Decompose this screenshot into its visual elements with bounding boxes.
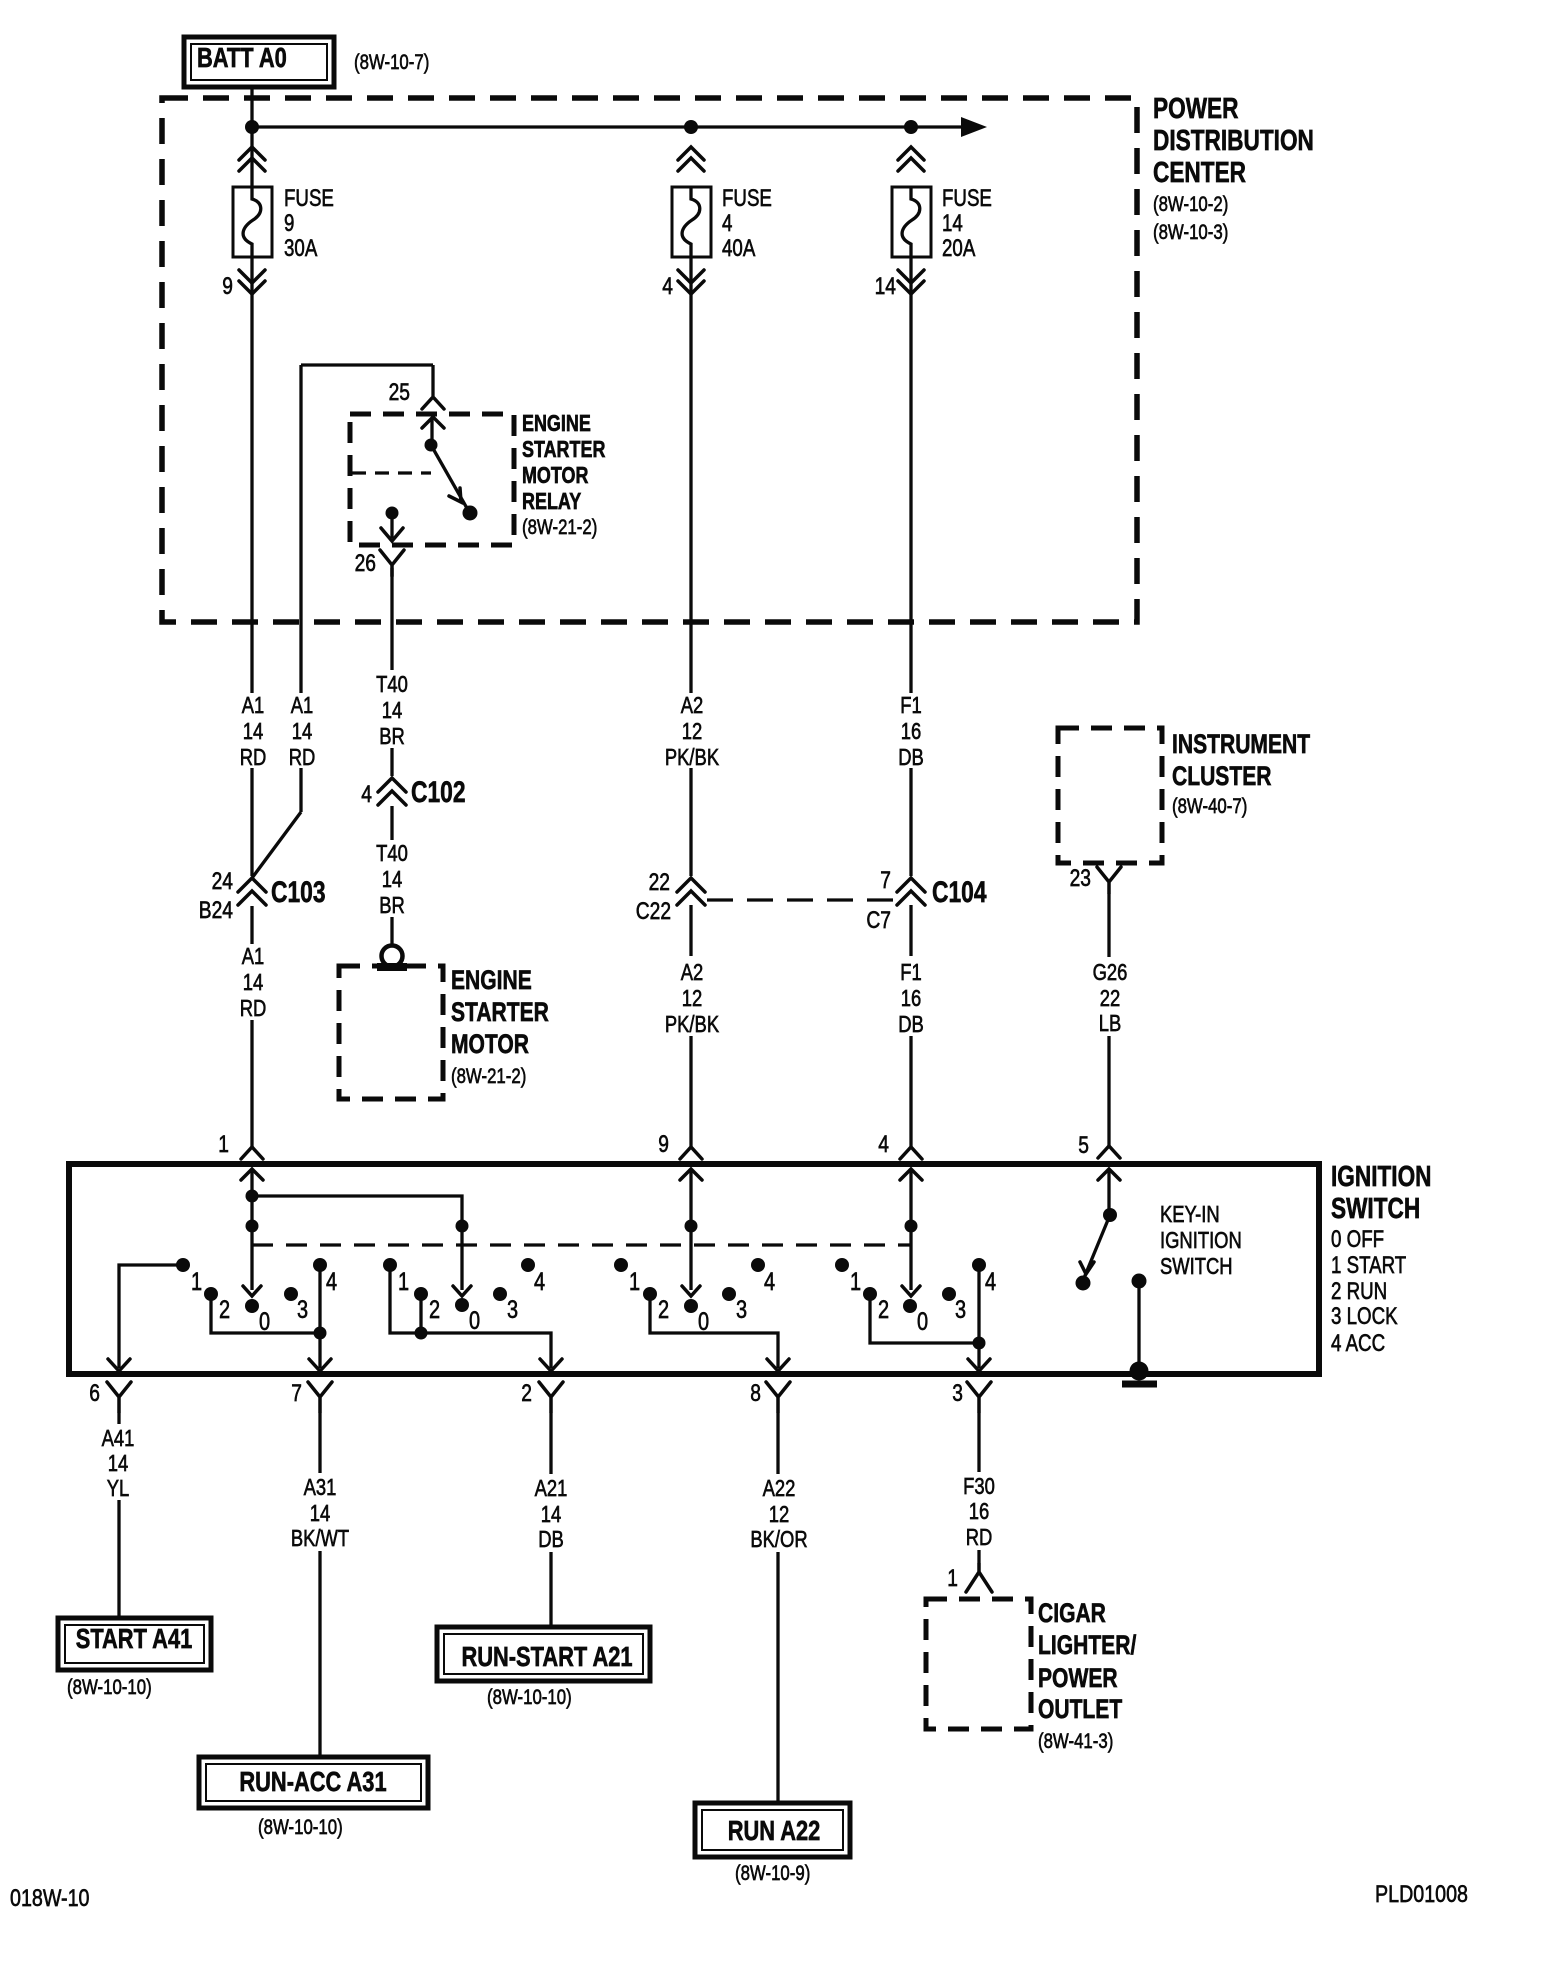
fuse 14 20A bbox=[892, 185, 992, 262]
junction node at fuse 9 bbox=[245, 120, 259, 134]
svg-text:KEY-IN: KEY-IN bbox=[1160, 1201, 1220, 1227]
wire label A2 12 PK/BK lower bbox=[665, 959, 720, 1037]
svg-text:A2: A2 bbox=[681, 959, 704, 985]
connector C104 pins 7/C7 bbox=[866, 867, 986, 934]
wafer 3 run contact wire to pin 8 bbox=[650, 1294, 778, 1368]
svg-text:2: 2 bbox=[219, 1296, 230, 1324]
svg-text:C102: C102 bbox=[411, 776, 466, 809]
svg-text:RUN-START A21: RUN-START A21 bbox=[461, 1641, 632, 1672]
svg-text:C22: C22 bbox=[636, 898, 671, 925]
svg-text:RD: RD bbox=[240, 995, 267, 1021]
svg-text:4: 4 bbox=[985, 1268, 996, 1296]
pin 6 exit fork below box bbox=[89, 1380, 131, 1412]
svg-text:3: 3 bbox=[952, 1380, 963, 1407]
svg-text:5: 5 bbox=[1078, 1132, 1089, 1159]
svg-text:2: 2 bbox=[429, 1296, 440, 1324]
cigar lighter pin 1 entry fork bbox=[947, 1564, 992, 1592]
svg-text:FUSE: FUSE bbox=[284, 185, 334, 212]
svg-text:4: 4 bbox=[722, 210, 732, 237]
svg-text:T40: T40 bbox=[376, 671, 408, 697]
RUN-ACC A31 box bbox=[199, 1757, 428, 1808]
key-in ignition switch arm bbox=[1076, 1169, 1118, 1291]
wire label A41 14 YL bbox=[102, 1425, 135, 1501]
dashed link C22 to C104 bbox=[707, 898, 895, 901]
wafer 1 contacts bbox=[176, 1258, 337, 1336]
wire from battery to bus bbox=[250, 88, 253, 187]
cluster pin 23 exit fork bbox=[1070, 865, 1121, 893]
svg-text:0 OFF: 0 OFF bbox=[1331, 1226, 1384, 1253]
svg-text:14: 14 bbox=[382, 866, 403, 892]
connector chevron above fuse 9 bbox=[239, 147, 265, 171]
svg-text:LIGHTER/: LIGHTER/ bbox=[1038, 1630, 1137, 1660]
svg-text:CENTER: CENTER bbox=[1153, 157, 1246, 189]
wire label A21 14 DB bbox=[535, 1475, 568, 1552]
wire fuse 9 down to C103 bbox=[250, 257, 253, 1147]
svg-text:3: 3 bbox=[507, 1296, 518, 1324]
wire label T40 14 BR lower bbox=[376, 840, 408, 918]
svg-text:1: 1 bbox=[850, 1268, 861, 1296]
svg-text:0: 0 bbox=[469, 1307, 480, 1335]
svg-text:14: 14 bbox=[243, 969, 264, 995]
wire label F1 16 DB lower bbox=[898, 959, 924, 1037]
svg-text:1: 1 bbox=[629, 1268, 640, 1296]
wire label A2 12 PK/BK upper bbox=[665, 692, 720, 770]
svg-text:A21: A21 bbox=[535, 1475, 568, 1501]
svg-text:POWER: POWER bbox=[1038, 1663, 1118, 1693]
svg-text:3: 3 bbox=[297, 1296, 308, 1324]
relay output node pin 26 bbox=[381, 507, 403, 542]
pin 4 entry chevrons bbox=[878, 1131, 922, 1180]
svg-text:(8W-10-7): (8W-10-7) bbox=[354, 51, 429, 74]
svg-text:G26: G26 bbox=[1093, 959, 1128, 985]
svg-text:4: 4 bbox=[662, 273, 673, 300]
svg-text:(8W-10-2): (8W-10-2) bbox=[1153, 193, 1228, 216]
svg-text:018W-10: 018W-10 bbox=[10, 1885, 90, 1912]
svg-text:0: 0 bbox=[917, 1308, 928, 1336]
svg-text:23: 23 bbox=[1070, 865, 1091, 892]
svg-text:(8W-21-2): (8W-21-2) bbox=[451, 1065, 526, 1088]
svg-text:DB: DB bbox=[538, 1526, 564, 1552]
svg-text:(8W-41-3): (8W-41-3) bbox=[1038, 1730, 1113, 1753]
svg-text:4: 4 bbox=[534, 1268, 545, 1296]
wire T40 segments bbox=[390, 568, 393, 945]
svg-text:F30: F30 bbox=[963, 1473, 995, 1499]
wire F1 segments bbox=[909, 257, 912, 1147]
wafer 1 run/acc contact wire to pin 7 bbox=[211, 1265, 327, 1368]
wafer 3 contacts bbox=[614, 1258, 775, 1336]
svg-text:C104: C104 bbox=[932, 876, 987, 909]
svg-text:14: 14 bbox=[292, 718, 313, 744]
svg-text:STARTER: STARTER bbox=[522, 436, 606, 462]
wire label A22 12 BK/OR bbox=[750, 1475, 807, 1552]
svg-text:A1: A1 bbox=[242, 943, 265, 969]
cigar lighter / power outlet dashed box bbox=[926, 1599, 1031, 1729]
svg-text:9: 9 bbox=[658, 1131, 669, 1158]
svg-text:(8W-10-9): (8W-10-9) bbox=[735, 1862, 810, 1885]
junction node at fuse 14 bbox=[904, 120, 918, 134]
svg-text:B24: B24 bbox=[199, 897, 233, 924]
svg-text:A1: A1 bbox=[242, 692, 265, 718]
pin 2 exit fork below box bbox=[521, 1380, 563, 1412]
svg-text:16: 16 bbox=[901, 985, 922, 1011]
svg-text:12: 12 bbox=[682, 718, 703, 744]
svg-text:14: 14 bbox=[875, 273, 896, 300]
pin 5 entry fork bbox=[1078, 1132, 1120, 1180]
engine starter motor relay dashed box bbox=[350, 414, 514, 545]
wafer 3 input wire bbox=[682, 1169, 700, 1296]
connector chevron above fuse 14 bbox=[898, 147, 924, 171]
svg-text:RD: RD bbox=[289, 744, 316, 770]
svg-text:BR: BR bbox=[379, 723, 405, 749]
relay internal dashed linkage bbox=[352, 471, 431, 474]
connector chevron above fuse 4 bbox=[678, 147, 704, 171]
svg-text:22: 22 bbox=[649, 869, 670, 896]
connector chevron below fuse 14, pin 14 bbox=[875, 270, 924, 300]
wire A22 to RUN box bbox=[776, 1412, 779, 1802]
wire to relay pin 25 bbox=[431, 365, 434, 396]
svg-text:MOTOR: MOTOR bbox=[451, 1029, 529, 1059]
instrument cluster label bbox=[1172, 729, 1310, 818]
wafer 2 start/run contact wire to pin 2 bbox=[390, 1265, 551, 1368]
relay common node bbox=[425, 439, 438, 452]
svg-text:9: 9 bbox=[222, 273, 233, 300]
svg-text:INSTRUMENT: INSTRUMENT bbox=[1172, 729, 1310, 759]
svg-text:POWER: POWER bbox=[1153, 93, 1239, 125]
wire label F1 16 DB upper bbox=[898, 692, 924, 770]
svg-text:2: 2 bbox=[658, 1296, 669, 1324]
svg-text:14: 14 bbox=[108, 1450, 129, 1476]
svg-text:ENGINE: ENGINE bbox=[451, 965, 532, 995]
pin 7 exit arrow bbox=[309, 1359, 331, 1371]
RUN A22 box bbox=[695, 1803, 850, 1857]
connector C103 pins 24/B24 bbox=[199, 868, 326, 924]
svg-text:14: 14 bbox=[243, 718, 264, 744]
svg-text:4 ACC: 4 ACC bbox=[1331, 1330, 1385, 1357]
svg-text:30A: 30A bbox=[284, 235, 317, 262]
svg-text:7: 7 bbox=[291, 1380, 302, 1407]
svg-text:24: 24 bbox=[212, 868, 233, 895]
svg-text:8: 8 bbox=[750, 1380, 761, 1407]
svg-text:(8W-40-7): (8W-40-7) bbox=[1172, 795, 1247, 818]
svg-text:CIGAR: CIGAR bbox=[1038, 1598, 1106, 1628]
battery feed box BATT A0 bbox=[184, 37, 334, 87]
wire label F30 16 RD bbox=[963, 1473, 995, 1550]
wire label A1 14 RD below C103 bbox=[240, 943, 267, 1021]
pin 7 exit fork below box bbox=[291, 1380, 332, 1412]
wire label A31 14 BK/WT bbox=[291, 1474, 349, 1551]
svg-text:LB: LB bbox=[1099, 1010, 1122, 1036]
svg-text:22: 22 bbox=[1100, 985, 1121, 1011]
svg-text:1: 1 bbox=[218, 1131, 229, 1158]
svg-text:6: 6 bbox=[89, 1380, 100, 1407]
svg-text:IGNITION: IGNITION bbox=[1331, 1161, 1432, 1193]
svg-text:F1: F1 bbox=[900, 692, 922, 718]
key-in switch ground contact bbox=[1132, 1274, 1147, 1372]
svg-text:14: 14 bbox=[310, 1500, 331, 1526]
svg-text:BK/OR: BK/OR bbox=[750, 1526, 807, 1552]
connector C102 pin 4 bbox=[361, 776, 465, 809]
RUN-START A21 box bbox=[437, 1627, 650, 1681]
svg-text:BR: BR bbox=[379, 892, 405, 918]
power distribution center dashed box bbox=[162, 98, 1137, 622]
wafer 1 to wafer 2 link wire bbox=[252, 1196, 471, 1296]
pin 2 exit arrow bbox=[540, 1359, 562, 1371]
wire relay feed left branch down bbox=[252, 365, 301, 878]
svg-text:STARTER: STARTER bbox=[451, 997, 549, 1027]
svg-text:BATT A0: BATT A0 bbox=[197, 42, 287, 73]
svg-text:A31: A31 bbox=[304, 1474, 337, 1500]
svg-text:FUSE: FUSE bbox=[942, 185, 992, 212]
svg-text:3: 3 bbox=[955, 1296, 966, 1324]
wire G26 from cluster to switch bbox=[1107, 893, 1110, 1146]
fuse 9 30A bbox=[233, 185, 334, 262]
svg-text:MOTOR: MOTOR bbox=[522, 462, 589, 488]
svg-text:40A: 40A bbox=[722, 235, 755, 262]
svg-text:20A: 20A bbox=[942, 235, 975, 262]
pin 6 exit arrow bbox=[108, 1359, 130, 1371]
svg-text:ENGINE: ENGINE bbox=[522, 410, 591, 436]
wire relay feed horizontal bbox=[301, 363, 433, 366]
pin 3 exit fork below box bbox=[952, 1380, 991, 1412]
svg-text:START A41: START A41 bbox=[76, 1623, 193, 1654]
svg-text:14: 14 bbox=[942, 210, 963, 237]
engine starter motor label bbox=[451, 965, 549, 1088]
svg-text:26: 26 bbox=[355, 550, 376, 577]
svg-text:3 LOCK: 3 LOCK bbox=[1331, 1303, 1398, 1330]
pin 3 exit arrow bbox=[968, 1359, 990, 1371]
svg-text:SWITCH: SWITCH bbox=[1160, 1253, 1233, 1279]
ring terminal at starter motor bbox=[377, 946, 407, 972]
svg-text:SWITCH: SWITCH bbox=[1331, 1193, 1420, 1225]
svg-text:12: 12 bbox=[682, 985, 703, 1011]
svg-text:(8W-10-10): (8W-10-10) bbox=[67, 1676, 152, 1699]
svg-text:9: 9 bbox=[284, 210, 294, 237]
svg-text:C7: C7 bbox=[866, 907, 891, 934]
wire label G26 22 LB bbox=[1093, 959, 1128, 1036]
svg-text:12: 12 bbox=[769, 1501, 790, 1527]
instrument cluster dashed box bbox=[1058, 728, 1162, 863]
svg-text:DB: DB bbox=[898, 744, 924, 770]
wafer 2 contacts bbox=[383, 1258, 545, 1335]
fuse 4 40A bbox=[672, 185, 772, 262]
svg-text:FUSE: FUSE bbox=[722, 185, 772, 212]
pin 1 entry chevrons bbox=[218, 1131, 263, 1180]
wafer 4 contacts bbox=[835, 1258, 996, 1336]
START A41 box bbox=[58, 1618, 211, 1670]
svg-text:RD: RD bbox=[966, 1524, 993, 1550]
wire A21 to RUN-START box bbox=[549, 1412, 552, 1625]
svg-text:25: 25 bbox=[389, 379, 410, 406]
pin 8 exit fork below box bbox=[750, 1380, 790, 1412]
svg-text:YL: YL bbox=[107, 1475, 130, 1501]
svg-text:14: 14 bbox=[541, 1501, 562, 1527]
svg-text:PLD01008: PLD01008 bbox=[1375, 1881, 1468, 1908]
svg-text:4: 4 bbox=[361, 781, 372, 808]
wire label T40 14 BR upper bbox=[376, 671, 408, 749]
power distribution center label bbox=[1153, 93, 1314, 244]
wafer 1 input wire bbox=[243, 1169, 261, 1296]
pin 8 exit arrow bbox=[767, 1359, 789, 1371]
svg-text:A22: A22 bbox=[763, 1475, 796, 1501]
svg-text:RUN A22: RUN A22 bbox=[728, 1815, 821, 1846]
svg-text:3: 3 bbox=[736, 1296, 747, 1324]
wire A31 to RUN-ACC box bbox=[318, 1412, 321, 1756]
svg-text:IGNITION: IGNITION bbox=[1160, 1227, 1242, 1253]
svg-text:2: 2 bbox=[521, 1380, 532, 1407]
svg-text:1: 1 bbox=[947, 1565, 958, 1592]
svg-text:4: 4 bbox=[878, 1131, 889, 1158]
svg-text:16: 16 bbox=[969, 1498, 990, 1524]
relay pin 25 entry chevrons bbox=[389, 379, 444, 443]
cigar lighter label bbox=[1038, 1598, 1137, 1753]
svg-text:(8W-10-3): (8W-10-3) bbox=[1153, 221, 1228, 244]
svg-text:4: 4 bbox=[764, 1268, 775, 1296]
wire A41 to START box bbox=[117, 1412, 120, 1617]
svg-text:DISTRIBUTION: DISTRIBUTION bbox=[1153, 125, 1314, 157]
svg-text:(8W-10-10): (8W-10-10) bbox=[258, 1816, 343, 1839]
wire label A1 14 RD right column bbox=[289, 692, 316, 770]
svg-text:A41: A41 bbox=[102, 1425, 135, 1451]
svg-text:A1: A1 bbox=[291, 692, 314, 718]
wire F30 to cigar lighter bbox=[977, 1412, 980, 1564]
svg-text:14: 14 bbox=[382, 697, 403, 723]
engine starter motor dashed box bbox=[339, 966, 443, 1099]
wafer 1 start contact wire to pin 6 bbox=[119, 1265, 183, 1368]
wafer 4 input wire bbox=[902, 1169, 920, 1296]
bus wire A0 bbox=[252, 125, 962, 128]
wire A2 segments bbox=[689, 257, 692, 1147]
junction node at fuse 4 bbox=[684, 120, 698, 134]
wafer 4 run/acc contact wire to pin 3 bbox=[870, 1265, 986, 1368]
svg-text:DB: DB bbox=[898, 1011, 924, 1037]
svg-text:BK/WT: BK/WT bbox=[291, 1525, 349, 1551]
connector C22 pin 22 bbox=[636, 869, 705, 925]
svg-text:OUTLET: OUTLET bbox=[1038, 1694, 1123, 1724]
svg-text:4: 4 bbox=[326, 1268, 337, 1296]
svg-text:T40: T40 bbox=[376, 840, 408, 866]
pin 9 entry chevrons bbox=[658, 1131, 702, 1180]
wire label A1 14 RD left column bbox=[240, 692, 267, 770]
ignition switch label bbox=[1331, 1161, 1432, 1357]
connector chevron below fuse 4, pin 4 bbox=[662, 270, 704, 300]
dashed mechanical linkage bbox=[252, 1243, 911, 1246]
svg-text:PK/BK: PK/BK bbox=[665, 1011, 720, 1037]
relay switch arm bbox=[431, 445, 478, 521]
connector chevron below fuse 9, pin 9 bbox=[222, 270, 265, 300]
svg-text:(8W-10-10): (8W-10-10) bbox=[487, 1686, 572, 1709]
svg-text:2 RUN: 2 RUN bbox=[1331, 1278, 1387, 1305]
bus arrow bbox=[961, 117, 987, 137]
ignition switch box bbox=[69, 1164, 1319, 1374]
relay label bbox=[522, 410, 606, 539]
relay pin 26 exit fork bbox=[355, 550, 404, 577]
svg-text:7: 7 bbox=[880, 867, 891, 894]
svg-text:1 START: 1 START bbox=[1331, 1252, 1406, 1279]
svg-text:PK/BK: PK/BK bbox=[665, 744, 720, 770]
svg-text:A2: A2 bbox=[681, 692, 704, 718]
svg-text:CLUSTER: CLUSTER bbox=[1172, 761, 1272, 791]
ground symbol bbox=[1122, 1362, 1157, 1385]
svg-text:C103: C103 bbox=[271, 876, 326, 909]
svg-text:RUN-ACC A31: RUN-ACC A31 bbox=[239, 1766, 386, 1797]
svg-text:F1: F1 bbox=[900, 959, 922, 985]
svg-text:RELAY: RELAY bbox=[522, 488, 581, 514]
svg-text:16: 16 bbox=[901, 718, 922, 744]
key-in ignition switch label bbox=[1160, 1201, 1242, 1279]
svg-text:(8W-21-2): (8W-21-2) bbox=[522, 516, 597, 539]
svg-text:RD: RD bbox=[240, 744, 267, 770]
svg-text:1: 1 bbox=[398, 1268, 409, 1296]
svg-text:2: 2 bbox=[878, 1296, 889, 1324]
svg-text:1: 1 bbox=[191, 1268, 202, 1296]
